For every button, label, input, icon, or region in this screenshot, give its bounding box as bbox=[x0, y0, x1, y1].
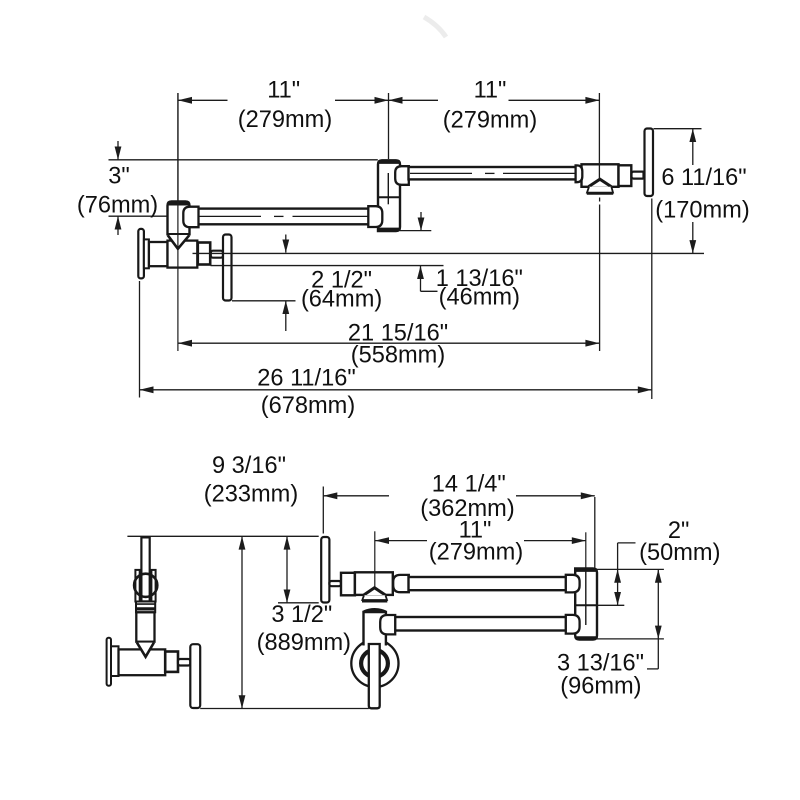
dim 14 1/4" (362mm) line bbox=[323, 495, 389, 497]
dim 3 13/16" text leader bbox=[647, 668, 658, 670]
svg-text:26 11/16": 26 11/16" bbox=[257, 366, 355, 392]
supply riser pipe bbox=[141, 537, 149, 601]
lower arm right socket bbox=[566, 615, 580, 634]
dim 9 3/16" (233mm) vertical line bbox=[241, 536, 243, 708]
pipe 1 right socket bbox=[368, 206, 382, 227]
upper arm right socket bbox=[566, 575, 580, 593]
valve body right bbox=[168, 241, 198, 268]
svg-text:(558mm): (558mm) bbox=[351, 343, 445, 369]
svg-text:3 1/2": 3 1/2" bbox=[271, 602, 332, 628]
middle joint block (pivot 2) bbox=[378, 160, 400, 231]
svg-text:(889mm): (889mm) bbox=[257, 630, 351, 656]
dim 26 11/16" (678mm) line bbox=[140, 389, 652, 391]
svg-text:11": 11" bbox=[267, 78, 300, 104]
top tick for 2"/96mm dims bbox=[597, 568, 664, 570]
top reference tick line bbox=[127, 535, 318, 537]
dimension line 11" (279mm) right span bbox=[389, 99, 439, 101]
dim 11in first: extension line left pivot bbox=[177, 93, 179, 201]
spout elbow cap bbox=[364, 610, 386, 612]
dim 2 1/2" (64mm): upper arrow to centerline bbox=[285, 235, 287, 253]
dim 3 1/2" (889mm) vertical line bbox=[286, 536, 288, 603]
spout outlet skirt bbox=[587, 187, 613, 193]
supply valve flange bbox=[107, 638, 111, 686]
dim 3": upper arrow bbox=[117, 141, 119, 160]
spout chevron bbox=[589, 179, 612, 186]
faucet body main bbox=[355, 572, 393, 595]
svg-text:(170mm): (170mm) bbox=[655, 198, 749, 224]
dim 6 11/16": vertical line lower segment bbox=[692, 222, 694, 253]
wall flange (top view) bbox=[138, 229, 144, 279]
extension line left flange for 678 bbox=[139, 281, 141, 398]
BOTTOM DRAWING TEXT bbox=[204, 453, 721, 700]
dim 21 15/16" (558mm) line bbox=[178, 342, 599, 344]
dim 1 13/16" (46mm): tick from joint block bottom bbox=[400, 230, 432, 232]
svg-text:(279mm): (279mm) bbox=[238, 107, 332, 133]
valve centerline long reference line bbox=[193, 252, 705, 254]
union nut plates bbox=[135, 570, 139, 602]
faucet lever bar (front view) bbox=[321, 537, 329, 603]
pipe 2 centerline dashes bbox=[410, 172, 472, 174]
arm pipe 1 bbox=[198, 209, 369, 225]
svg-text:(64mm): (64mm) bbox=[301, 287, 382, 313]
svg-text:(233mm): (233mm) bbox=[204, 482, 298, 508]
elbow funnel V into valve bbox=[168, 235, 189, 249]
supply valve hub bbox=[111, 646, 119, 676]
dimension line 11" (279mm) left span bbox=[178, 99, 228, 101]
dim 6 11/16": vertical line upper segment bbox=[692, 129, 694, 165]
faucet body small section bbox=[341, 573, 355, 596]
faucet chevron bbox=[364, 588, 386, 595]
svg-text:(50mm): (50mm) bbox=[639, 540, 720, 566]
pipe 1 centerline dashes bbox=[199, 215, 261, 217]
dim 3 13/16" (96mm) vertical bbox=[657, 569, 659, 669]
right elbow block bbox=[575, 569, 597, 640]
ext line right elbow for 14 1/4 bbox=[594, 497, 596, 568]
lower arm left socket bbox=[380, 615, 395, 634]
supply funnel V bbox=[137, 643, 154, 657]
supply valve body bbox=[119, 649, 166, 675]
spout lever bar bbox=[645, 129, 654, 197]
dim 2" bottom tick bbox=[597, 604, 624, 606]
joint block inner centerline bbox=[387, 173, 389, 204]
upper arm pipe bbox=[409, 577, 567, 590]
dim 2 1/2": bottom tick at handle end bbox=[232, 300, 296, 302]
valve body left bbox=[149, 242, 168, 266]
supply valve stem bbox=[165, 652, 178, 672]
svg-text:(678mm): (678mm) bbox=[261, 393, 355, 419]
svg-text:(279mm): (279mm) bbox=[429, 540, 523, 566]
svg-text:9 3/16": 9 3/16" bbox=[212, 453, 286, 479]
spout body main bbox=[582, 164, 619, 187]
faucet stub bbox=[329, 581, 341, 586]
pipe 1 left socket bbox=[183, 207, 198, 228]
valve stem bbox=[198, 243, 210, 265]
svg-text:14 1/4": 14 1/4" bbox=[432, 472, 506, 498]
svg-text:(96mm): (96mm) bbox=[560, 674, 641, 700]
svg-text:11": 11" bbox=[474, 78, 507, 104]
svg-text:(46mm): (46mm) bbox=[439, 285, 520, 311]
spout body small section bbox=[619, 165, 632, 186]
dim 2" (50mm): leader bbox=[617, 543, 619, 570]
centerline through left pivot (inside elbow/valve) bbox=[177, 93, 179, 351]
upper arm pipe left socket bbox=[393, 575, 409, 592]
dim 1 13/16": lower arrow + leader bbox=[420, 266, 422, 292]
faucet outlet skirt bbox=[362, 595, 387, 600]
pipe 2 left socket bbox=[395, 166, 409, 185]
dim 3 1/2" bottom tick bbox=[278, 602, 319, 604]
ext line spout centerline for 11 bbox=[374, 531, 376, 587]
ext line elbow centerline for 11 bbox=[585, 532, 587, 568]
dim 11" (279mm) line bottom view bbox=[375, 540, 427, 542]
lower reference line y=265.6 bbox=[211, 265, 444, 267]
supply body bbox=[136, 612, 154, 641]
svg-text:(279mm): (279mm) bbox=[443, 108, 537, 134]
TOP DRAWING GROUP bbox=[109, 17, 705, 399]
flange hub bbox=[144, 239, 149, 268]
spout stub bbox=[632, 172, 645, 179]
wall flange outer circle bbox=[351, 640, 398, 687]
spout elbow body bbox=[364, 612, 386, 646]
dim 3": bottom tick at pipe centerline bbox=[109, 215, 179, 217]
wall elbow block (pivot 1) bbox=[168, 202, 190, 236]
svg-text:6 11/16": 6 11/16" bbox=[661, 165, 746, 191]
supply valve handle bar bbox=[190, 644, 200, 708]
wall flange inner ring bbox=[361, 650, 388, 677]
dim 11in second: extension line right pivot through spout body bbox=[598, 93, 600, 180]
BOTTOM DRAWING GROUP bbox=[107, 487, 664, 709]
dim 1 13/16": upper arrow bbox=[420, 212, 422, 231]
supply valve stub bbox=[178, 659, 190, 666]
valve handle bar bbox=[223, 235, 232, 301]
lower arm pipe bbox=[395, 617, 566, 631]
dim 2 1/2": lower arrow bbox=[285, 301, 287, 331]
pipe 2 right socket bbox=[576, 165, 583, 182]
ext line lever top for 14 1/4 bbox=[322, 487, 324, 534]
svg-text:(76mm): (76mm) bbox=[77, 193, 158, 219]
dim 2" vertical with arrows bbox=[617, 569, 619, 605]
spout stub end cap bbox=[642, 171, 645, 180]
smudge artifact top center bbox=[424, 17, 446, 37]
dim 3 13/16" bottom tick bbox=[597, 638, 664, 640]
bottom reference tick (handle to spout) bbox=[200, 708, 369, 710]
extension line right lever for 678 bbox=[651, 199, 653, 400]
arm pipe 2 bbox=[409, 167, 577, 179]
dim 3" (76mm): top tick from middle joint bbox=[109, 159, 378, 161]
valve stem stub bbox=[211, 251, 223, 258]
elbow inner centerline bbox=[585, 571, 587, 625]
dim 6 11/16" (170mm): top tick bbox=[654, 128, 702, 130]
spout down tube bbox=[369, 644, 380, 708]
TOP DRAWING TEXT bbox=[77, 78, 750, 420]
supply nut bands bbox=[136, 602, 155, 613]
dim 3": lower arrow bbox=[117, 216, 119, 235]
dim 11in: extension line middle pivot bbox=[388, 93, 390, 159]
svg-text:3": 3" bbox=[108, 164, 130, 190]
union ball circle bbox=[134, 574, 157, 597]
spout centerline dash-dot for 558 bbox=[599, 198, 601, 202]
